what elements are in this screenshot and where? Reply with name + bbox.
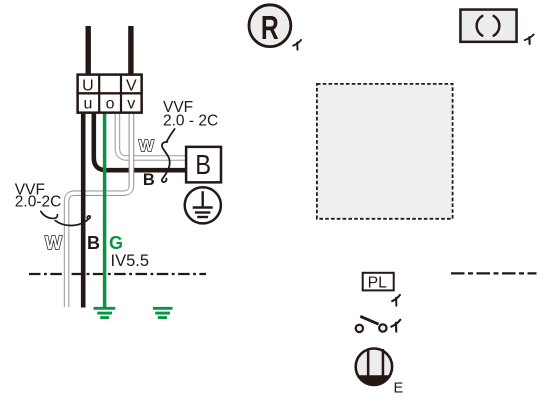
svg-text:W: W: [139, 138, 155, 155]
svg-text:B: B: [87, 233, 100, 253]
svg-text:G: G: [109, 233, 123, 253]
svg-text:IV5.5: IV5.5: [111, 252, 150, 270]
svg-text:B: B: [195, 151, 211, 181]
svg-text:PL: PL: [368, 275, 388, 292]
svg-text:2.0 - 2C: 2.0 - 2C: [163, 113, 218, 130]
svg-text:o: o: [106, 95, 115, 112]
svg-text:u: u: [83, 95, 92, 112]
svg-text:2.0-2C: 2.0-2C: [15, 194, 62, 211]
svg-text:W: W: [45, 233, 62, 253]
svg-text:E: E: [394, 380, 404, 396]
svg-text:B: B: [143, 171, 155, 189]
svg-text:R: R: [261, 11, 279, 47]
svg-text:U: U: [82, 77, 94, 94]
svg-text:V: V: [126, 77, 137, 94]
svg-text:v: v: [127, 95, 135, 112]
